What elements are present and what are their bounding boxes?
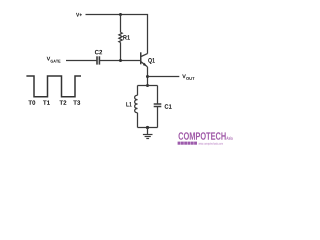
wire R1 branch lower [120, 42, 122, 60]
node junction dot top rail [119, 13, 122, 16]
wire V_GATE to C2 [66, 60, 97, 62]
transistor Q1 [141, 52, 155, 67]
node T1 label [43, 100, 50, 104]
wire tank bottom rail [138, 127, 158, 129]
logo COMPOTECH Asia [178, 132, 233, 145]
resistor R1 [119, 32, 122, 42]
wire C2 to base [99, 60, 140, 62]
capacitor C1 [154, 86, 172, 128]
node ground junction dot [146, 126, 149, 129]
capacitor C2 [95, 50, 102, 65]
ground [143, 128, 153, 139]
wire V+ top rail and collector drop [86, 15, 148, 54]
node T0 label [28, 100, 35, 104]
wire tank top rail [138, 85, 158, 87]
wire emitter down [147, 67, 149, 86]
node V_GATE label [47, 57, 61, 63]
node tank top junction dot [146, 84, 149, 87]
node V_OUT label [182, 74, 194, 80]
node V+ label [76, 13, 82, 17]
node V_OUT junction dot [146, 75, 149, 78]
node junction dot base [119, 59, 122, 62]
wire to V_OUT [148, 76, 180, 78]
node T2 label [59, 100, 66, 104]
gate drive square wave [26, 76, 81, 97]
node T3 label [73, 100, 80, 104]
wire R1 branch upper [120, 15, 122, 33]
inductor L1 [126, 86, 137, 128]
